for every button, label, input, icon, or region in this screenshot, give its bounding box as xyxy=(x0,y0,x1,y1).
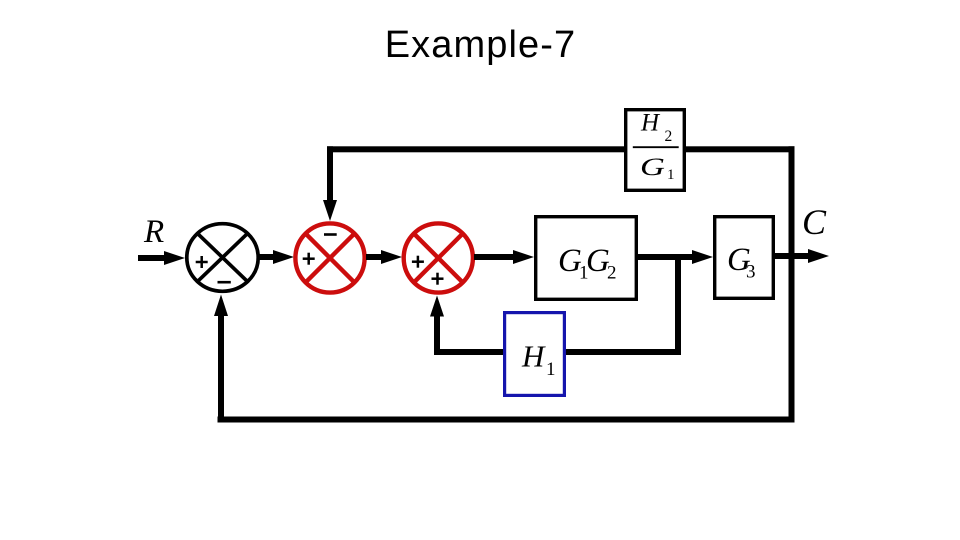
svg-text:1: 1 xyxy=(667,167,675,183)
svg-text:H: H xyxy=(640,110,661,137)
wire S1 to S2 xyxy=(258,250,294,264)
wire G1G2 to G3 with branch node xyxy=(637,250,713,264)
wire bottom feedback loop from output node to S1 xyxy=(214,295,795,423)
summing junction S1 (black) xyxy=(187,224,258,292)
label H2 over G1 xyxy=(633,110,679,184)
label G1G2 xyxy=(558,243,617,284)
block H2/G1 (fraction) xyxy=(626,110,685,191)
svg-text:2: 2 xyxy=(607,263,617,284)
svg-text:H: H xyxy=(521,339,546,374)
S3 plus sign bottom xyxy=(432,273,444,285)
svg-text:G: G xyxy=(640,153,665,181)
svg-text:C: C xyxy=(802,202,827,242)
S2 minus sign xyxy=(324,233,337,236)
wire R input arrow into summer S1 xyxy=(138,251,185,265)
svg-text:2: 2 xyxy=(665,128,673,145)
wire top feedback from output node through H2/G1 to S2 xyxy=(323,146,795,422)
wire H1 feedback from branch node to S3 xyxy=(430,257,681,355)
block G3 xyxy=(715,217,774,299)
summing junction S3 (red) xyxy=(404,223,473,292)
svg-text:Example-7: Example-7 xyxy=(385,24,577,66)
label H1 xyxy=(521,339,556,381)
svg-text:1: 1 xyxy=(546,359,556,380)
block H1 (blue) xyxy=(505,313,565,396)
S3 plus sign left xyxy=(412,256,424,268)
block G1G2 xyxy=(536,217,637,300)
wire S3 to block G1G2 xyxy=(474,250,534,264)
wire G3 output to C xyxy=(774,249,829,263)
label G3 xyxy=(727,242,756,283)
svg-text:3: 3 xyxy=(746,262,756,283)
S2 plus sign xyxy=(303,253,315,265)
S1 minus sign xyxy=(218,281,231,284)
wire S2 to S3 xyxy=(366,250,402,264)
S1 plus sign xyxy=(196,256,208,268)
summing junction S2 (red) xyxy=(295,223,364,292)
svg-text:R: R xyxy=(143,214,164,250)
